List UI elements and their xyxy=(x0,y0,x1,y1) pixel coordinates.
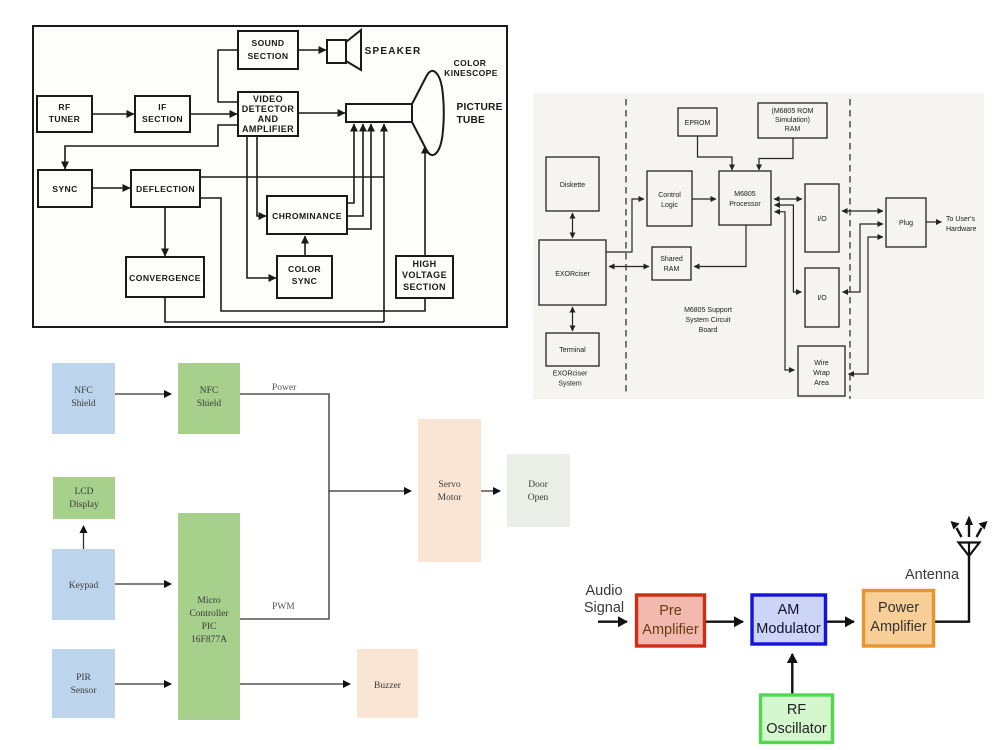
svg-text:Hardware: Hardware xyxy=(946,226,976,233)
svg-text:Signal: Signal xyxy=(584,600,624,616)
svg-text:Micro: Micro xyxy=(197,596,220,606)
svg-text:SECTION: SECTION xyxy=(142,114,183,124)
svg-text:Amplifier: Amplifier xyxy=(642,622,699,638)
svg-text:COLOR: COLOR xyxy=(288,264,321,274)
svg-text:PWM: PWM xyxy=(272,602,295,612)
svg-text:Shield: Shield xyxy=(197,399,222,409)
svg-text:COLOR: COLOR xyxy=(454,58,487,68)
svg-text:Audio: Audio xyxy=(585,583,622,599)
svg-text:Area: Area xyxy=(814,380,829,387)
svg-text:DETECTOR: DETECTOR xyxy=(242,104,295,114)
svg-text:SPEAKER: SPEAKER xyxy=(365,46,422,57)
svg-text:LCD: LCD xyxy=(75,487,94,497)
svg-text:Plug: Plug xyxy=(899,220,913,227)
svg-text:Sensor: Sensor xyxy=(71,686,98,696)
svg-text:CHROMINANCE: CHROMINANCE xyxy=(272,211,342,221)
svg-text:RF: RF xyxy=(787,702,806,718)
svg-text:Wrap: Wrap xyxy=(813,370,830,377)
svg-text:Power: Power xyxy=(878,600,919,616)
svg-text:TUBE: TUBE xyxy=(457,115,486,126)
svg-text:Amplifier: Amplifier xyxy=(870,619,927,635)
svg-text:16F877A: 16F877A xyxy=(191,635,227,645)
svg-text:EXORciser: EXORciser xyxy=(555,271,590,278)
svg-text:Shared: Shared xyxy=(660,256,683,263)
svg-text:To User's: To User's xyxy=(946,216,975,223)
svg-text:Logic: Logic xyxy=(661,202,678,209)
svg-text:Diskette: Diskette xyxy=(560,182,585,189)
svg-text:M6805 Support: M6805 Support xyxy=(684,307,732,314)
svg-text:AMPLIFIER: AMPLIFIER xyxy=(242,124,294,134)
svg-text:VIDEO: VIDEO xyxy=(253,94,283,104)
svg-text:EXORciser: EXORciser xyxy=(553,371,588,378)
svg-text:Simulation): Simulation) xyxy=(775,117,810,124)
svg-text:Power: Power xyxy=(272,383,297,393)
svg-text:RAM: RAM xyxy=(664,266,680,273)
svg-text:AM: AM xyxy=(778,602,800,618)
svg-text:NFC: NFC xyxy=(200,386,218,396)
svg-text:SOUND: SOUND xyxy=(251,38,284,48)
svg-text:Motor: Motor xyxy=(438,493,463,503)
svg-text:PIR: PIR xyxy=(76,673,91,683)
svg-text:Shield: Shield xyxy=(71,399,96,409)
svg-text:SECTION: SECTION xyxy=(248,51,289,61)
svg-text:HIGH: HIGH xyxy=(412,259,436,269)
svg-text:SYNC: SYNC xyxy=(52,184,77,194)
svg-text:I/O: I/O xyxy=(817,295,827,302)
svg-text:Controller: Controller xyxy=(189,609,229,619)
svg-text:PIC: PIC xyxy=(202,622,217,632)
svg-text:RF: RF xyxy=(58,102,70,112)
svg-text:SECTION: SECTION xyxy=(403,282,446,292)
svg-text:Buzzer: Buzzer xyxy=(374,681,402,691)
svg-text:TUNER: TUNER xyxy=(49,114,81,124)
svg-text:Keypad: Keypad xyxy=(69,581,99,591)
svg-text:(M6805 ROM: (M6805 ROM xyxy=(771,108,813,115)
svg-text:System Circuit: System Circuit xyxy=(685,317,730,324)
svg-text:DEFLECTION: DEFLECTION xyxy=(136,184,195,194)
svg-text:CONVERGENCE: CONVERGENCE xyxy=(129,273,201,283)
svg-text:AND: AND xyxy=(258,114,279,124)
svg-text:Door: Door xyxy=(528,480,548,490)
svg-text:Processor: Processor xyxy=(729,201,761,208)
svg-text:VOLTAGE: VOLTAGE xyxy=(402,270,447,280)
svg-text:Modulator: Modulator xyxy=(756,621,821,637)
svg-text:System: System xyxy=(558,381,582,388)
svg-text:Board: Board xyxy=(699,327,718,334)
svg-text:RAM: RAM xyxy=(785,126,801,133)
svg-text:Wire: Wire xyxy=(814,360,828,367)
svg-text:M6805: M6805 xyxy=(734,191,756,198)
svg-text:Servo: Servo xyxy=(438,480,460,490)
svg-text:IF: IF xyxy=(158,102,166,112)
svg-text:I/O: I/O xyxy=(817,216,827,223)
svg-text:Pre: Pre xyxy=(659,603,682,619)
svg-text:Oscillator: Oscillator xyxy=(766,721,827,737)
svg-text:SYNC: SYNC xyxy=(292,276,317,286)
svg-text:Control: Control xyxy=(658,192,681,199)
svg-text:Open: Open xyxy=(528,493,549,503)
svg-text:Display: Display xyxy=(69,500,99,510)
svg-text:Terminal: Terminal xyxy=(559,347,586,354)
svg-text:NFC: NFC xyxy=(74,386,92,396)
svg-text:EPROM: EPROM xyxy=(685,120,711,127)
svg-text:PICTURE: PICTURE xyxy=(457,102,503,113)
svg-text:Antenna: Antenna xyxy=(905,567,960,583)
svg-text:KINESCOPE: KINESCOPE xyxy=(444,68,498,78)
